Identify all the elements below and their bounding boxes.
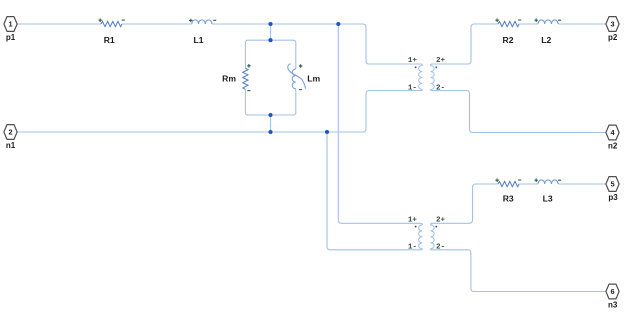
resistor R2 xyxy=(495,19,521,27)
wire top node to lower transformer 1+ xyxy=(338,24,421,223)
wire L1 to upper transformer 1+ xyxy=(212,24,421,64)
wire Rm/Lm top bar xyxy=(245,40,295,69)
svg-text:L1: L1 xyxy=(193,35,203,45)
wire p1 lead xyxy=(17,23,101,25)
svg-text:R2: R2 xyxy=(503,35,514,45)
svg-text:5: 5 xyxy=(610,180,614,189)
junction node top at Rm stub xyxy=(268,22,272,26)
port 3 xyxy=(606,17,619,32)
svg-text:1-: 1- xyxy=(408,244,417,252)
svg-text:p2: p2 xyxy=(608,33,618,42)
port 5 xyxy=(606,177,619,192)
wire stub Rm/Lm bar to n1 xyxy=(270,115,272,132)
svg-text:2: 2 xyxy=(8,128,12,137)
polarity dot T1 winding 2 xyxy=(435,66,437,68)
wire lower transformer 2+ to R3 xyxy=(432,184,499,223)
svg-text:3: 3 xyxy=(610,20,614,29)
port 2 xyxy=(4,125,17,140)
wire L2 to p2 port xyxy=(558,23,606,25)
wire Rm/Lm bottom bar xyxy=(245,89,295,115)
port 1 xyxy=(4,17,17,32)
resistor R1 xyxy=(99,19,125,27)
resistor R3 xyxy=(495,179,521,187)
inductor L3 xyxy=(535,179,562,185)
wire R3 to L3 xyxy=(519,183,538,185)
svg-text:R1: R1 xyxy=(104,35,115,45)
inductor L1 xyxy=(189,19,216,24)
svg-text:Lm: Lm xyxy=(307,73,320,83)
junction node Rm/Lm top bar xyxy=(268,38,272,42)
polarity dot T2 winding 2 xyxy=(435,226,437,228)
wire upper transformer 2+ to R2 xyxy=(432,24,499,64)
polarity dot T1 winding 1 xyxy=(415,66,417,68)
svg-text:1-: 1- xyxy=(408,84,417,92)
transformer T2 (lower mutual inductor) xyxy=(419,223,435,250)
svg-text:6: 6 xyxy=(610,287,614,296)
svg-text:2-: 2- xyxy=(436,244,445,252)
polarity dot T2 winding 1 xyxy=(415,226,417,228)
inductor L2 xyxy=(535,19,562,25)
port 4 xyxy=(606,125,619,140)
svg-text:Rm: Rm xyxy=(222,73,236,83)
svg-text:L3: L3 xyxy=(543,193,553,203)
wire R1 to L1 xyxy=(122,23,192,25)
resistor Rm xyxy=(243,64,251,91)
svg-text:p1: p1 xyxy=(6,33,16,42)
svg-text:2+: 2+ xyxy=(436,216,446,224)
svg-text:L2: L2 xyxy=(541,35,551,45)
svg-text:n3: n3 xyxy=(608,301,618,310)
svg-text:1+: 1+ xyxy=(408,216,418,224)
junction node Rm/Lm bottom bar xyxy=(268,113,272,117)
junction node n1 at Rm stub xyxy=(268,130,272,134)
svg-text:n2: n2 xyxy=(608,142,618,151)
wire n1 to upper transformer 1- xyxy=(17,91,421,133)
svg-text:R3: R3 xyxy=(503,193,514,203)
svg-text:2-: 2- xyxy=(436,84,445,92)
transformer T1 (upper mutual inductor) xyxy=(419,64,435,91)
wire upper transformer 2- to n2 port xyxy=(432,91,606,133)
port 6 xyxy=(606,284,619,299)
wire lower transformer 2- to n3 port xyxy=(432,250,606,292)
svg-text:n1: n1 xyxy=(6,141,16,150)
junction node top at lower-transformer branch xyxy=(336,22,340,26)
inductor Lm xyxy=(288,64,306,90)
wire R2 to L2 xyxy=(519,23,538,25)
junction node n1 at lower-transformer branch xyxy=(325,130,329,134)
svg-text:2+: 2+ xyxy=(436,57,446,65)
svg-text:1+: 1+ xyxy=(408,57,418,65)
wire L3 to p3 port xyxy=(558,183,606,185)
svg-text:1: 1 xyxy=(8,20,12,29)
wire stub top node to Rm/Lm bar xyxy=(270,24,272,40)
svg-text:p3: p3 xyxy=(608,193,618,202)
wire n1 node to lower transformer 1- xyxy=(327,132,421,250)
